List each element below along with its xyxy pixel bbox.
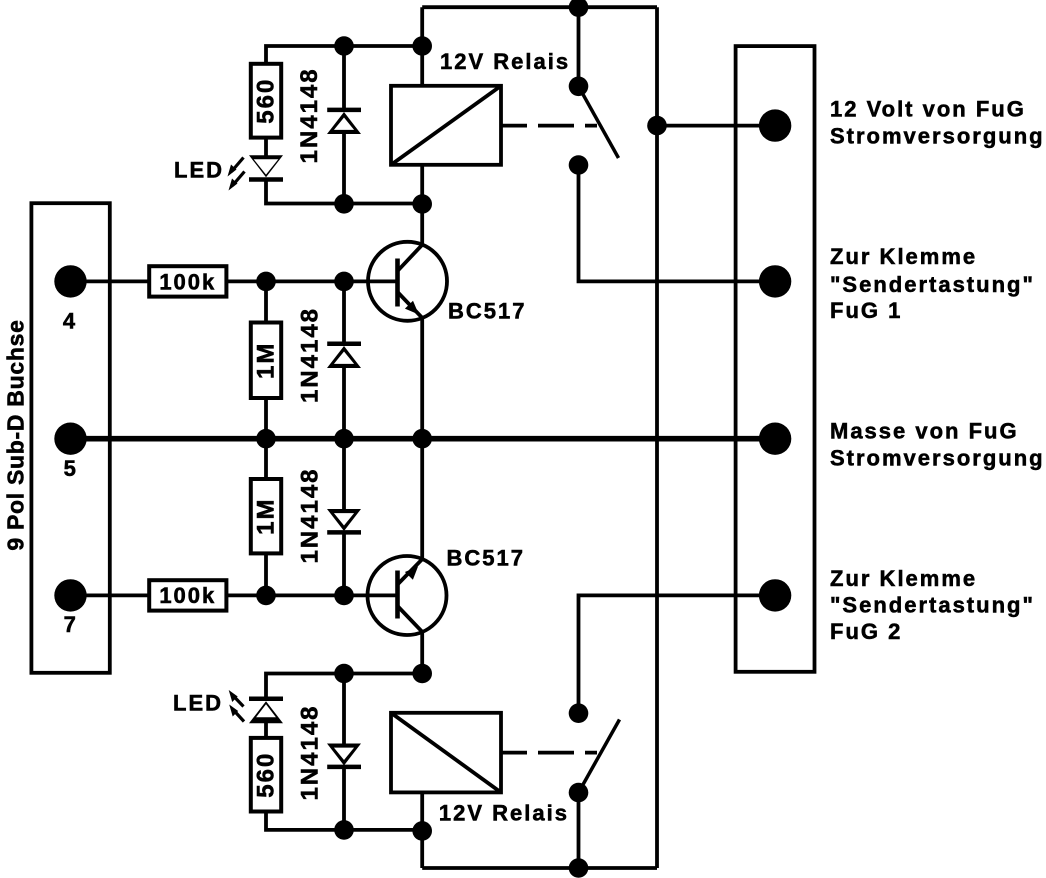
junction group1 top D1 (334, 36, 354, 56)
diode D4 lead bottom (342, 767, 346, 830)
svg-text:"Sendertastung": "Sendertastung" (830, 593, 1035, 618)
relay K1 box (391, 86, 501, 165)
svg-text:Stromversorgung: Stromversorgung (830, 124, 1045, 149)
resistor R6 560 body (251, 738, 281, 812)
switch S2 arm (579, 720, 620, 793)
transistor Q2 collector stroke (398, 606, 423, 632)
svg-text:12 Volt von FuG: 12 Volt von FuG (830, 96, 1026, 121)
wire group1 top horizontal (266, 46, 422, 64)
wire LED1 to group1 bottom (266, 180, 422, 204)
diode D4 cathode bar (327, 765, 361, 770)
relay K2 actuator dashed link (501, 751, 597, 755)
relay K2 box (391, 713, 501, 793)
wire node B1 to R2 (264, 281, 268, 322)
wire relay K2 bottom lead (420, 792, 424, 868)
wire bottom rail horizontal (422, 866, 657, 870)
transistor Q1 circle (368, 242, 447, 321)
svg-text:4: 4 (63, 309, 77, 334)
connector right box (736, 46, 815, 672)
relay K1 diagonal (391, 86, 501, 165)
pin FuG2 right connector (759, 579, 791, 611)
svg-text:BC517: BC517 (448, 299, 526, 324)
svg-text:5: 5 (64, 456, 78, 481)
svg-text:1N4148: 1N4148 (297, 704, 324, 800)
LED D5 cathode bar (249, 177, 283, 182)
resistor R4 1M body (251, 479, 281, 553)
wire relay K1 top lead (420, 7, 424, 86)
svg-text:BC517: BC517 (447, 546, 525, 571)
junction group1 top K1 (412, 36, 432, 56)
svg-text:1N4148: 1N4148 (297, 307, 324, 403)
diode D1 1N4148 lead top (342, 46, 346, 110)
transistor Q2 emitter arrow (405, 567, 418, 580)
LED D6 cathode bar (249, 697, 283, 702)
diode D2 1N4148 lead top (342, 281, 346, 343)
wire R4 to node B2 (264, 553, 268, 595)
transistor Q2 emitter stroke (398, 559, 423, 584)
svg-text:7: 7 (64, 612, 78, 637)
pin FuG1 right connector (759, 265, 791, 297)
junction group2 bottom K2 (412, 821, 432, 841)
transistor Q2 circle (368, 556, 447, 635)
diode D3 1N4148 lead top (342, 439, 346, 511)
diode D1 cathode bar (327, 108, 361, 113)
wire rail to pin 12V (657, 124, 775, 128)
wire switch S2 lower contact (577, 793, 581, 868)
svg-text:560: 560 (253, 752, 280, 798)
wire LED2 to R6 (264, 722, 268, 738)
svg-text:1N4148: 1N4148 (296, 67, 323, 163)
svg-text:100k: 100k (159, 269, 216, 294)
diode D4 1N4148 lead top (342, 674, 346, 745)
svg-text:1M: 1M (253, 342, 280, 379)
junction group2 bottom D4 (334, 820, 354, 840)
LED D6 triangle (249, 701, 283, 723)
diode D2 lead bottom (342, 366, 346, 438)
switch S1 lower contact dot (569, 155, 589, 175)
wire R3 to Q1 base (226, 279, 397, 283)
junction group1 bottom K1 (412, 194, 432, 214)
junction group2 top D4 (334, 664, 354, 684)
junction mass D2 (334, 429, 354, 449)
pin masse right connector (759, 423, 791, 455)
svg-text:Zur Klemme: Zur Klemme (830, 244, 977, 269)
wire group2 bottom horizontal (266, 812, 422, 830)
transistor Q2 base bar (395, 571, 400, 619)
wire mass to R4 (264, 439, 268, 479)
LED D5 triangle (249, 155, 283, 177)
junction top rail (569, 0, 589, 17)
svg-text:Stromversorgung: Stromversorgung (830, 446, 1045, 471)
svg-text:1M: 1M (253, 498, 280, 535)
junction node B2 R4 (256, 586, 276, 606)
LED D5 light arrows (228, 158, 245, 191)
wire right rail vertical (655, 7, 659, 868)
wire mass bus (71, 436, 776, 442)
junction node B1 R2 (256, 272, 276, 292)
svg-text:LED: LED (173, 691, 223, 716)
transistor Q1 emitter stroke (398, 292, 423, 318)
diode D1 triangle (327, 112, 361, 134)
transistor Q1 base bar (395, 259, 400, 307)
svg-text:9 Pol Sub-D Buchse: 9 Pol Sub-D Buchse (3, 319, 29, 550)
diode D3 cathode bar (327, 530, 361, 535)
svg-text:Zur Klemme: Zur Klemme (830, 566, 977, 591)
wire group2 top horizontal (266, 674, 422, 699)
wire top rail horizontal (422, 5, 657, 9)
resistor R3 100k body (149, 266, 226, 296)
junction bottom rail (569, 858, 589, 878)
svg-text:Masse von FuG: Masse von FuG (830, 418, 1019, 443)
svg-text:100k: 100k (159, 583, 216, 608)
wire R5 to Q2 base (226, 594, 397, 598)
junction rail pin1 (647, 116, 667, 136)
wire relay K1 bottom lead (420, 165, 424, 245)
wire R1 to LED1 (264, 138, 268, 156)
wire switch S2 to pin FuG2 (579, 595, 776, 713)
junction node B1 D2 (334, 272, 354, 292)
junction node B2 D3 (334, 586, 354, 606)
transistor Q1 emitter arrow (405, 301, 419, 315)
wire Q2 collector to group2 (420, 632, 424, 674)
wire pin7 to R5 (71, 594, 150, 598)
LED D6 light arrows (229, 690, 244, 722)
pin 5 left connector (54, 423, 86, 455)
wire Q1 emitter to mass (420, 318, 424, 439)
switch S1 arm (579, 86, 619, 158)
svg-text:1N4148: 1N4148 (297, 467, 324, 563)
switch S2 upper contact dot (569, 703, 589, 723)
pin 7 left connector (54, 579, 86, 611)
switch S1 upper contact dot (569, 77, 589, 97)
diode D2 cathode bar (327, 342, 361, 347)
connector left box 9 pol sub-d (31, 203, 109, 673)
junction mass Q1 emitter (412, 429, 432, 449)
wire switch S1 to pin FuG1 (579, 165, 776, 281)
diode D3 triangle (327, 509, 361, 531)
wire Q2 emitter to mass (420, 439, 424, 560)
switch S1 upper contact wire (577, 7, 581, 86)
diode D1 lead bottom (342, 133, 346, 204)
diode D4 triangle (327, 744, 361, 766)
wire pin4 to R3 (71, 279, 150, 283)
svg-text:560: 560 (253, 78, 280, 124)
diode D3 lead bottom (342, 532, 346, 595)
resistor R1 560 body (251, 64, 281, 138)
transistor Q1 collector stroke (398, 245, 423, 271)
relay K2 diagonal (391, 713, 501, 793)
resistor R5 100k body (149, 580, 226, 610)
svg-text:FuG 1: FuG 1 (830, 298, 902, 323)
pin 12V right connector (759, 109, 791, 141)
junction mass R2 (256, 429, 276, 449)
svg-text:"Sendertastung": "Sendertastung" (830, 272, 1035, 297)
pin 4 left connector (54, 265, 86, 297)
svg-text:LED: LED (174, 158, 224, 183)
svg-text:FuG 2: FuG 2 (830, 619, 902, 644)
svg-text:12V Relais: 12V Relais (439, 801, 569, 826)
relay K1 actuator dashed link (501, 124, 597, 128)
wire R2 to mass (264, 398, 268, 439)
junction group2 top K2 (412, 664, 432, 684)
svg-text:12V Relais: 12V Relais (440, 49, 570, 74)
switch S2 lower contact dot (569, 783, 589, 803)
resistor R2 1M body (251, 323, 281, 399)
junction group1 bottom D1 (334, 194, 354, 214)
diode D2 triangle (327, 346, 361, 368)
